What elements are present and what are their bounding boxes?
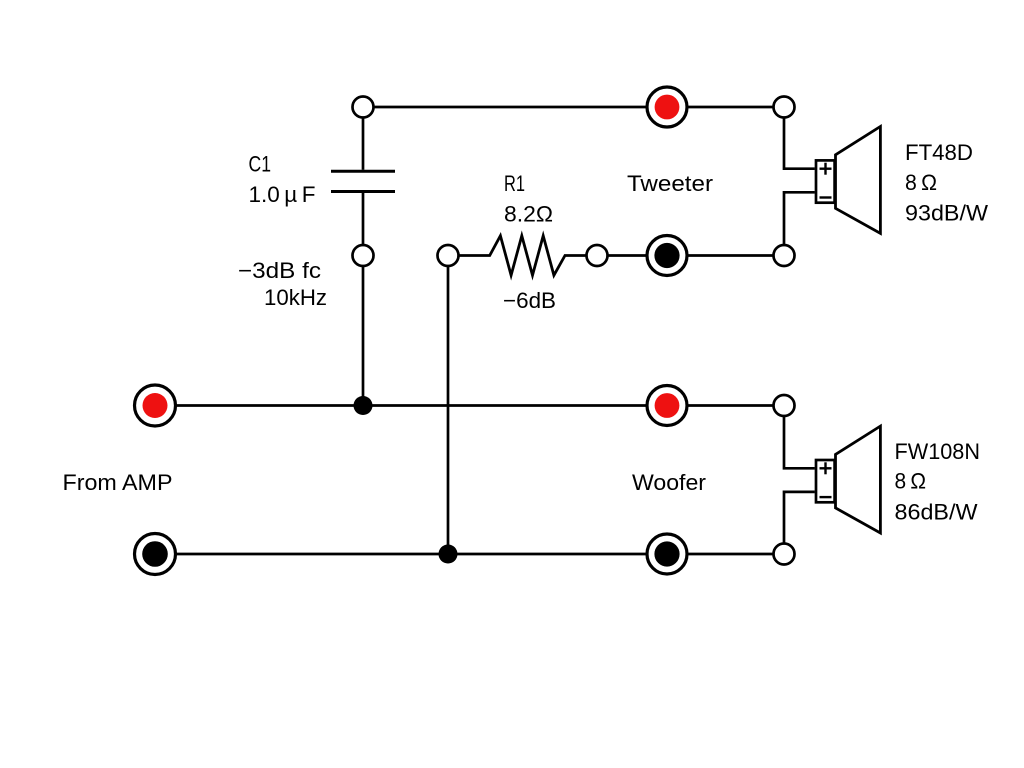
pin - tweeter: [820, 196, 832, 198]
svg-text:86dB/W: 86dB/W: [895, 500, 978, 525]
node R1 left terminal: [438, 245, 459, 266]
terminal woofer + (red): [647, 386, 687, 426]
svg-text:8 Ω: 8 Ω: [905, 170, 937, 195]
pin - woofer: [820, 496, 832, 498]
pin + woofer: [820, 462, 832, 474]
svg-text:FW108N: FW108N: [895, 439, 981, 464]
svg-text:R1: R1: [504, 171, 525, 196]
wire plus rail right segment: [687, 404, 774, 407]
wire tweeter speaker + lead: [784, 118, 815, 169]
speaker tweeter cone: [836, 127, 881, 234]
pin + tweeter: [820, 163, 832, 175]
svg-text:1.0 µ F: 1.0 µ F: [249, 182, 316, 207]
node woofer speaker -: [774, 544, 795, 565]
svg-text:8.2Ω: 8.2Ω: [504, 202, 553, 227]
node woofer speaker +: [774, 395, 795, 416]
wire tweeter minus to speaker: [687, 254, 774, 257]
svg-text:−3dB fc: −3dB fc: [238, 258, 321, 283]
wire minus rail left segment: [176, 553, 647, 556]
svg-text:10kHz: 10kHz: [264, 285, 327, 310]
terminal From AMP + (red): [135, 385, 176, 426]
svg-text:Woofer: Woofer: [632, 470, 706, 495]
capacitor C1: [331, 171, 395, 191]
svg-text:Tweeter: Tweeter: [627, 171, 713, 196]
node tweeter speaker -: [774, 245, 795, 266]
wire woofer speaker + lead: [784, 416, 815, 468]
wire C1 bottom lead: [362, 193, 365, 245]
speaker woofer driver box: [816, 460, 835, 502]
terminal From AMP - (black): [135, 534, 176, 575]
resistor R1: [459, 236, 587, 276]
svg-text:93dB/W: 93dB/W: [905, 201, 988, 226]
speaker tweeter driver box: [816, 160, 835, 202]
wire minus rail right segment: [687, 553, 774, 556]
wire R1 branch down to minus rail: [447, 266, 450, 554]
node R1 right terminal: [587, 245, 608, 266]
svg-text:8 Ω: 8 Ω: [895, 469, 927, 494]
terminal woofer - (black): [647, 534, 687, 574]
node C1 bottom terminal: [353, 245, 374, 266]
wire top rail right segment: [687, 106, 774, 109]
wire top rail left segment: [374, 106, 647, 109]
svg-text:−6dB: −6dB: [503, 288, 556, 313]
node top-left (C1 top terminal): [353, 97, 374, 118]
junction R1 to minus rail: [439, 545, 458, 564]
terminal tweeter - (black): [647, 236, 687, 276]
speaker woofer cone: [836, 426, 881, 533]
wire C1 top lead: [362, 118, 365, 170]
svg-text:FT48D: FT48D: [905, 140, 973, 165]
wire plus rail left segment: [176, 404, 647, 407]
wire tweeter speaker - lead: [784, 192, 815, 245]
wire R1 to tweeter minus: [608, 254, 647, 257]
svg-text:From AMP: From AMP: [63, 470, 173, 495]
junction C1 to plus rail: [354, 396, 373, 415]
wire woofer speaker - lead: [784, 492, 815, 544]
svg-text:C1: C1: [249, 152, 272, 177]
wire C1 branch down to plus rail: [362, 266, 365, 406]
node tweeter speaker +: [774, 97, 795, 118]
terminal tweeter + (red): [647, 87, 687, 127]
